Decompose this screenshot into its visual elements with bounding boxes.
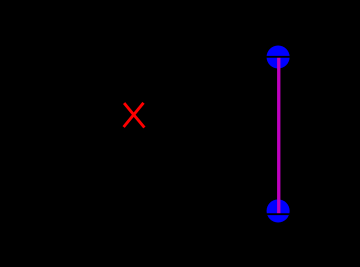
marker X (red) stroke 1	[124, 103, 144, 127]
edge path (magenta line N1-N2)	[277, 57, 280, 215]
node N1 (top blue circle)	[267, 45, 290, 68]
node N2 (bottom blue circle)	[267, 199, 290, 222]
edge chord through N1 (black)	[265, 56, 292, 58]
marker X (red) stroke 2	[124, 103, 144, 127]
edge chord through N2 (black)	[265, 213, 292, 215]
